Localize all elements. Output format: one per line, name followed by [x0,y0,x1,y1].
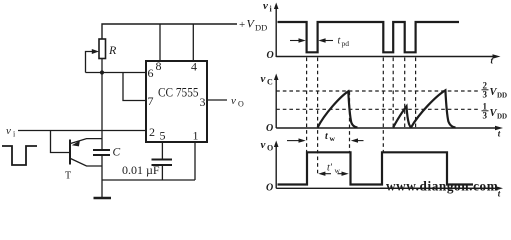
label tw [325,131,336,143]
dashed guide line x=393.2 [392,58,394,128]
dimension arrows tpd [290,38,333,42]
svg-text:w: w [330,134,336,143]
svg-text:3: 3 [483,111,488,121]
dashed guide line x=306.6 [306,58,308,152]
dashed guide line x=317.6 [317,58,319,176]
dashed guide line x=383.3 [382,58,384,152]
input pulse symbol [2,146,37,165]
svg-text:v: v [231,95,236,107]
svg-text:v: v [261,73,266,85]
capacitor 0.01uF [122,160,172,178]
svg-text:www.diangon.com: www.diangon.com [386,178,498,193]
wire pin 3 output [207,99,227,101]
waveform vO trace [278,152,474,184]
svg-text:+: + [239,19,245,31]
ground [94,197,112,200]
waveform vi trace [278,22,460,52]
svg-text:0.01 µF: 0.01 µF [122,163,160,177]
svg-text:v: v [261,139,266,151]
axis vO vertical [274,141,279,189]
svg-text:C: C [113,147,121,159]
label 2/3 VDD [482,81,508,100]
svg-text:O: O [238,100,244,109]
svg-text:v: v [6,125,11,137]
svg-text:v: v [263,0,268,12]
svg-text:4: 4 [191,60,197,74]
svg-text:3: 3 [483,90,488,100]
svg-text:DD: DD [255,23,267,33]
svg-text:O: O [267,50,274,61]
wire +VDD rail [102,24,237,39]
dimension arrows t'w [318,172,349,176]
dashed guide line x=404.7 [404,58,406,128]
svg-text:T: T [65,171,71,182]
svg-text:6: 6 [148,66,154,80]
waveform vC small bump [393,106,411,127]
svg-text:2: 2 [149,125,155,139]
wire pin 4 to rail [192,24,194,61]
wire vi line to pin 2 [18,130,146,132]
dashed guide line x=415.6 [415,58,417,128]
axis vC horizontal [276,126,503,131]
svg-text:3: 3 [200,95,206,109]
wire pin 8 to rail [159,24,161,61]
wire pin 1 to bottom rail [194,142,196,180]
dashed level line 2/3 VDD [276,90,478,92]
axis vC vertical [274,74,279,129]
svg-text:pd: pd [342,39,350,48]
axis vO horizontal overlay segment [380,187,494,189]
label vO axis [261,139,274,153]
svg-text:w: w [335,166,341,175]
power +VDD label [239,17,267,33]
svg-text:8: 8 [156,59,162,73]
label vi axis [263,0,273,14]
dimension arrows tw [287,138,364,142]
svg-text:t′: t′ [327,163,333,174]
svg-text:O: O [267,144,273,153]
resistor R [99,39,117,59]
dashed level line 1/3 VDD [276,108,478,110]
axis vO horizontal [276,186,503,191]
axis vi horizontal [276,54,500,59]
svg-text:7: 7 [148,94,154,108]
label t'w [327,163,341,176]
svg-text:C: C [267,78,273,87]
dashed guide line x=349.5 vC peak [349,92,351,152]
node junction dot [100,70,104,74]
svg-text:CC 7555: CC 7555 [158,86,199,100]
wire bottom rail [102,179,195,181]
capacitor C [93,147,121,159]
waveform vC charge curve 1 [318,91,358,127]
wire resistor wiper arrow [86,49,100,73]
label vC axis [261,73,274,87]
waveform vC charge curve 2 [411,90,456,127]
transistor T [70,139,102,166]
axis vi vertical [274,3,279,58]
wire pin 5 to capacitor 0.01uF [161,142,163,159]
wire base branch [51,131,70,153]
svg-text:R: R [108,43,117,57]
svg-text:t: t [338,36,341,47]
wire capacitor C bottom to ground [101,155,103,198]
svg-text:DD: DD [497,113,507,121]
wire node down to capacitor C [101,73,103,150]
svg-text:O: O [266,123,273,134]
label 1/3 VDD [482,102,508,121]
IC U1 CC7555 box [146,61,207,142]
svg-text:DD: DD [497,92,507,100]
svg-text:O: O [266,183,273,194]
svg-text:5: 5 [160,129,166,143]
wire R bottom to node and node to pin 6 [86,59,146,73]
svg-text:1: 1 [193,129,199,143]
label vO output [231,95,244,109]
wire pin 7 branch [123,73,145,101]
label tpd [338,36,350,49]
wire capacitor 0.01uF bottom [161,165,163,180]
label vi input [6,125,16,139]
